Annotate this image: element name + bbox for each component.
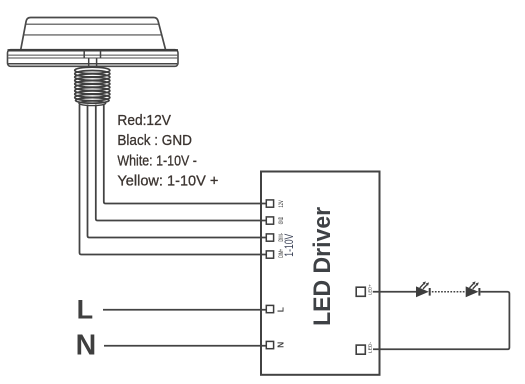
svg-text:Yellow: 1-10V +: Yellow: 1-10V + xyxy=(117,173,218,190)
L input wire xyxy=(103,309,266,311)
svg-text:Red:12V: Red:12V xyxy=(117,112,170,129)
LED driver box xyxy=(261,172,380,375)
svg-text:LED+: LED+ xyxy=(368,284,374,295)
wire yellow DIM+ xyxy=(80,105,267,255)
sensor flange xyxy=(8,50,179,67)
wire white DIM- xyxy=(88,105,267,238)
legend text xyxy=(117,112,218,190)
terminal DIM- xyxy=(266,234,273,241)
wire black GND xyxy=(96,105,266,221)
svg-text:12V: 12V xyxy=(278,200,285,208)
dashed wire between LEDs xyxy=(432,291,465,293)
svg-text:LED Driver: LED Driver xyxy=(309,207,336,326)
terminal LED+ xyxy=(356,287,365,296)
svg-text:L: L xyxy=(77,294,94,324)
svg-text:1-10V: 1-10V xyxy=(284,233,296,256)
svg-text:GND: GND xyxy=(278,217,285,225)
N input wire xyxy=(104,345,266,347)
terminal LED- xyxy=(356,345,365,354)
terminal DIM+ xyxy=(266,251,273,258)
LED D1 xyxy=(416,281,430,297)
svg-text:N: N xyxy=(275,342,285,348)
sensor neck tab xyxy=(84,51,100,67)
terminal GND xyxy=(266,217,273,224)
svg-text:LED-: LED- xyxy=(368,341,374,353)
wire red 12V xyxy=(104,105,266,204)
threaded stem xyxy=(75,67,110,105)
sensor dome cap xyxy=(21,18,166,50)
wire LED+ to LED1 xyxy=(373,291,416,293)
svg-text:L: L xyxy=(275,307,285,312)
LED D2 xyxy=(466,281,480,297)
terminal 12V xyxy=(266,200,273,207)
terminal N xyxy=(266,341,273,348)
svg-text:Black : GND: Black : GND xyxy=(117,132,192,149)
svg-text:White: 1-10V -: White: 1-10V - xyxy=(117,152,196,169)
return wire LED2 to LED- xyxy=(373,292,509,350)
svg-text:N: N xyxy=(76,329,97,361)
terminal L xyxy=(266,305,273,312)
